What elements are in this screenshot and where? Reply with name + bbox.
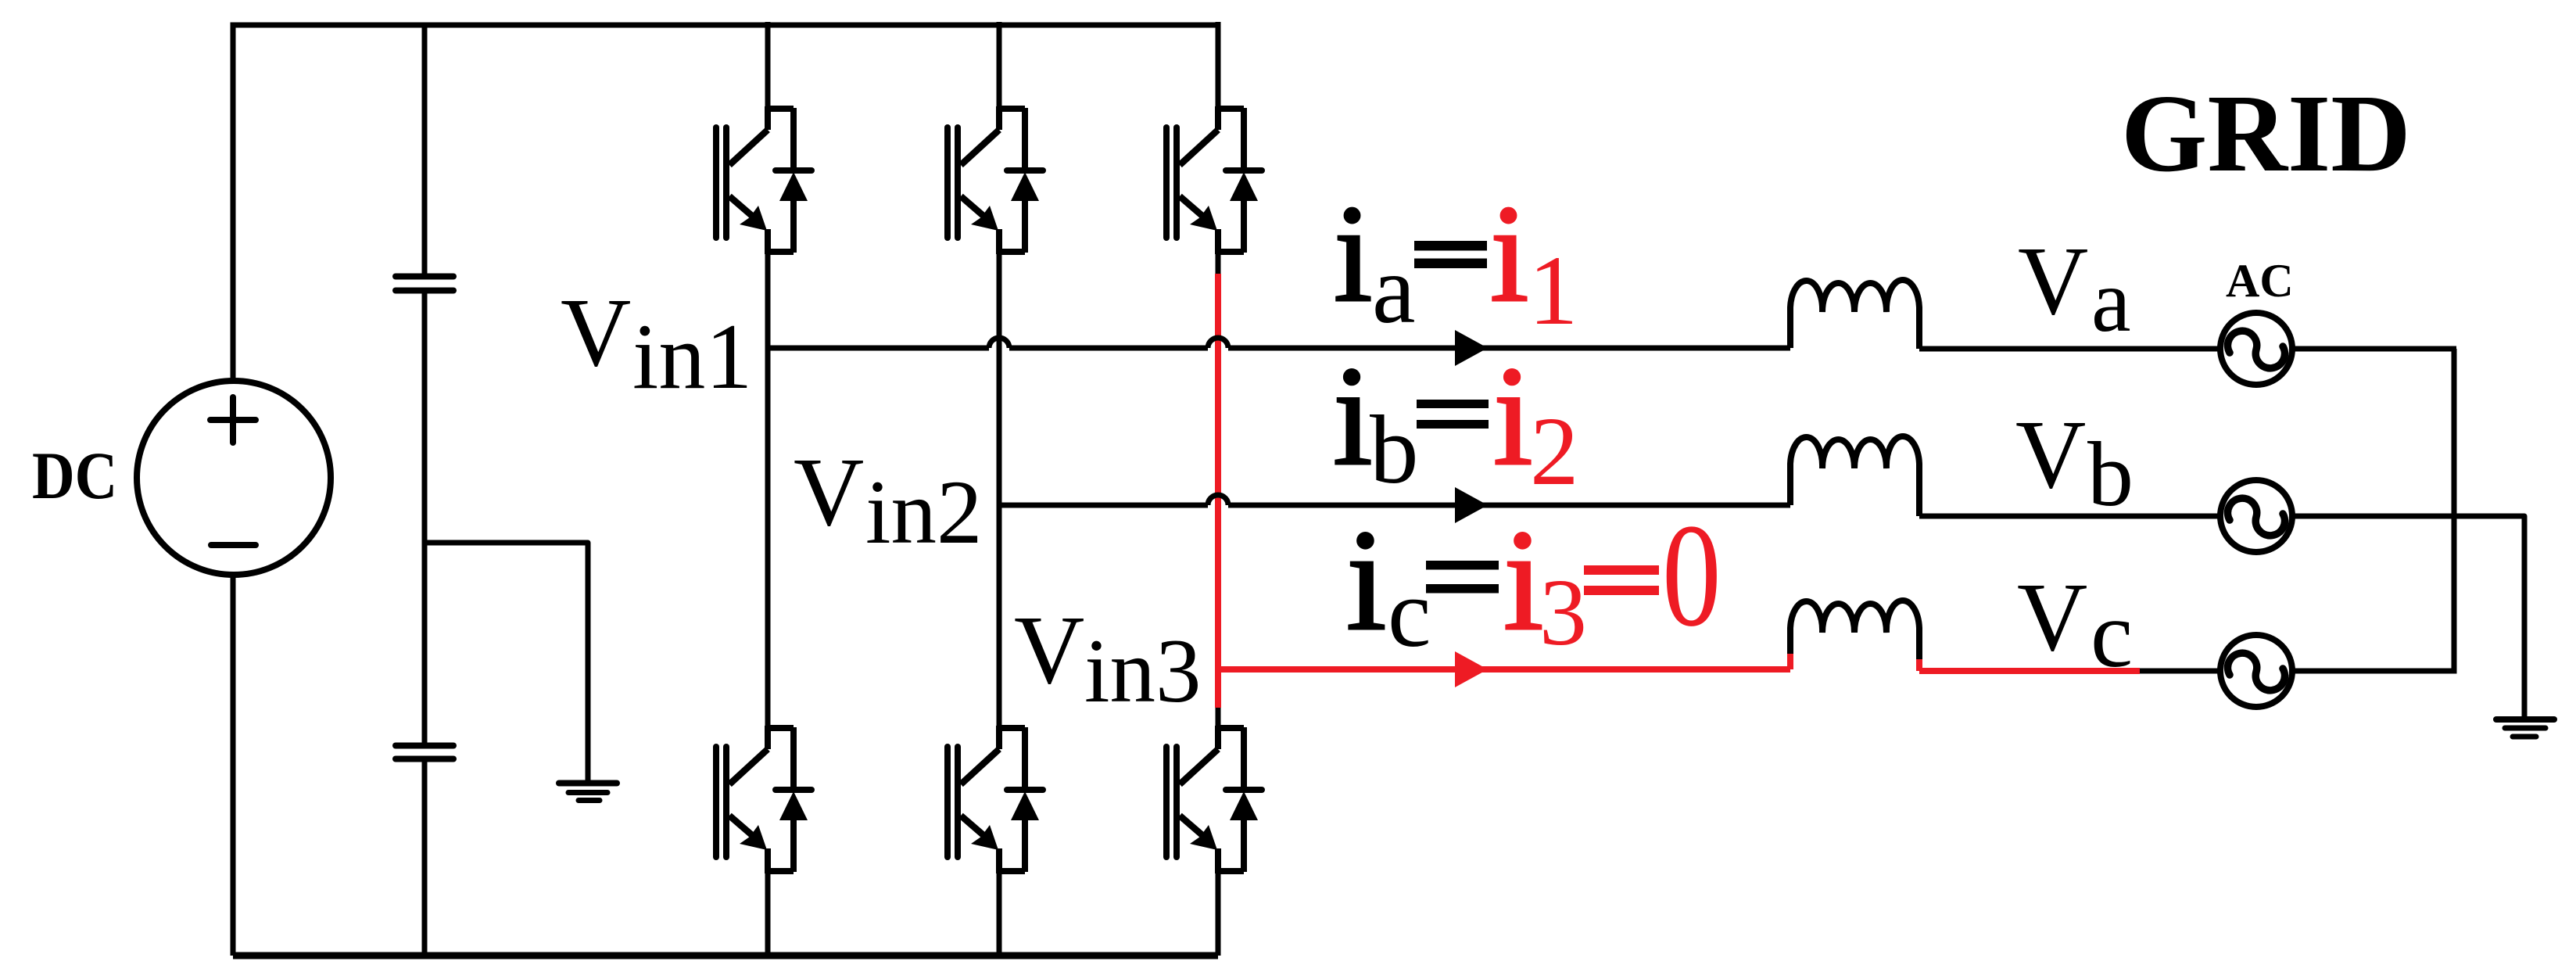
IGBT Q6 (leg 3 bottom) with freewheel diode <box>1166 726 1262 873</box>
arrow: phase C current direction (red) <box>1455 651 1488 687</box>
wire: phase B to grid and ground drop <box>1919 516 2524 719</box>
label ib= equals sign <box>1417 400 1489 429</box>
capacitor C1 bottom plate <box>396 288 453 294</box>
capacitor C1 top plate <box>396 274 453 280</box>
wire: capacitor branch vertical <box>422 25 428 956</box>
label ic= equals sign <box>1426 561 1499 594</box>
svg-text:V: V <box>1014 597 1084 705</box>
hop: phase A over leg 2 <box>989 338 1009 348</box>
svg-text:V: V <box>794 439 864 547</box>
svg-text:V: V <box>2018 228 2088 335</box>
wire: bottom DC bus <box>233 952 1218 959</box>
DC source plus sign <box>210 397 256 443</box>
AC source Vb <box>2220 480 2292 552</box>
DC source minus sign <box>211 542 256 548</box>
hop: phase A over leg 3 <box>1208 338 1228 348</box>
svg-text:a: a <box>1372 236 1415 344</box>
svg-text:AC: AC <box>2226 255 2294 307</box>
svg-text:i: i <box>1334 176 1372 331</box>
svg-text:c: c <box>1388 560 1431 668</box>
IGBT Q4 (leg 2 bottom) with freewheel diode <box>948 726 1043 873</box>
svg-text:V: V <box>561 279 631 387</box>
IGBT Q3 (leg 2 top) with freewheel diode <box>948 106 1043 254</box>
IGBT Q1 (leg 1 top) with freewheel diode <box>716 106 811 254</box>
inductor Lc <box>1790 601 1919 671</box>
svg-text:i: i <box>1503 500 1543 661</box>
inductor Lb <box>1790 436 1919 516</box>
wire: phase A output <box>768 346 1790 351</box>
ground symbol midpoint <box>559 784 617 801</box>
arrow: phase A current direction <box>1455 330 1488 366</box>
svg-text:i: i <box>1493 338 1533 495</box>
svg-text:3: 3 <box>1539 560 1587 665</box>
svg-text:i: i <box>1490 176 1528 331</box>
IGBT Q5 (leg 3 top) with freewheel diode <box>1166 106 1262 254</box>
label =0 red equals sign <box>1584 565 1659 595</box>
AC source Vc <box>2220 635 2292 707</box>
label ia= equals sign <box>1414 241 1487 268</box>
IGBT Q2 (leg 1 bottom) with freewheel diode <box>716 726 811 873</box>
ground symbol grid <box>2496 719 2554 737</box>
arrow: phase B current direction <box>1455 487 1488 523</box>
svg-text:b: b <box>1370 396 1419 504</box>
wire: top DC bus <box>233 25 1218 956</box>
inductor La <box>1790 280 1919 349</box>
wire: phase C red segment after inductor <box>1919 668 2140 674</box>
AC source Va <box>2220 313 2292 385</box>
svg-text:V: V <box>2015 401 2086 509</box>
wire: red tip of Lc left riser <box>1787 654 1793 669</box>
DC source V1 circle <box>137 381 331 575</box>
wire: leg 2 vertical <box>997 22 1002 956</box>
svg-text:i: i <box>1346 500 1386 661</box>
wire: red tip of Lc right riser <box>1916 659 1922 671</box>
svg-text:in1: in1 <box>632 304 752 408</box>
svg-text:a: a <box>2091 251 2131 350</box>
wire: leg 1 vertical <box>765 22 771 956</box>
wire: phase C to grid <box>1919 669 2456 674</box>
svg-text:1: 1 <box>1528 236 1578 346</box>
svg-text:V: V <box>2017 564 2087 672</box>
svg-text:in2: in2 <box>865 462 983 563</box>
svg-text:in3: in3 <box>1084 621 1202 722</box>
svg-text:0: 0 <box>1662 493 1722 658</box>
wire: DC midpoint tap <box>425 543 588 780</box>
wire: phase B output <box>999 503 1790 508</box>
wire: grid neutral vertical <box>2452 349 2457 674</box>
svg-text:DC: DC <box>32 439 117 514</box>
svg-text:2: 2 <box>1530 398 1579 506</box>
capacitor C2 bottom plate <box>396 756 453 762</box>
svg-text:i: i <box>1333 338 1373 495</box>
hop: phase B over leg 3 <box>1208 495 1228 505</box>
wire: phase A to grid <box>1919 346 2456 352</box>
capacitor C2 top plate <box>396 743 453 749</box>
svg-text:b: b <box>2087 423 2134 525</box>
wire: leg 3 red highlighted vertical <box>1215 274 1221 708</box>
wire: leg 3 vertical <box>1216 22 1221 956</box>
svg-text:GRID: GRID <box>2121 71 2411 195</box>
svg-text:c: c <box>2091 582 2133 687</box>
wire: phase C red highlighted segment <box>1218 666 1790 673</box>
